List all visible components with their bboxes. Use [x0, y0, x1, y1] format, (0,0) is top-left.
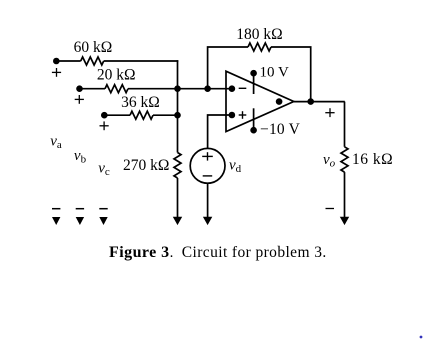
minus sign ground vc: [99, 208, 107, 210]
wire va to R 60k: [56, 60, 80, 62]
plus sign at terminal vb: [75, 95, 84, 104]
terminal vc: [101, 112, 108, 119]
svg-text:va: va: [50, 134, 62, 152]
resistor 36 kOhm: [130, 111, 153, 119]
label va: [50, 134, 62, 152]
resistor 20 kOhm: [105, 85, 128, 93]
resistor 270 kOhm: [174, 153, 181, 179]
positive supply pin dot: [250, 70, 257, 77]
minus sign ground va: [52, 208, 60, 210]
junction node bus/R36k: [174, 112, 181, 119]
label vc: [98, 161, 110, 179]
label vb: [74, 148, 87, 166]
wire vd to ground arrow: [207, 183, 209, 217]
wire R36k to bus: [153, 114, 178, 116]
op-amp inverting pin dot: [229, 85, 236, 92]
svg-text:20 kΩ: 20 kΩ: [97, 67, 136, 84]
wire 270k to ground arrow: [177, 178, 179, 218]
svg-text:Figure 3.: Figure 3.: [109, 244, 174, 261]
resistor 60 kOhm: [81, 57, 104, 65]
junction node bus/R20k: [174, 85, 181, 92]
label 36 kOhm: [121, 94, 160, 111]
source vd: [190, 148, 225, 183]
svg-text:Circuit for problem 3.: Circuit for problem 3.: [182, 244, 327, 261]
label 270 kOhm: [123, 157, 169, 174]
plus sign at terminal vc: [100, 121, 109, 130]
wire op-amp noninverting to vd source: [208, 115, 233, 149]
svg-text:36 kΩ: 36 kΩ: [121, 94, 160, 111]
svg-text:−10 V: −10 V: [260, 121, 301, 138]
label -10 V: [260, 121, 301, 138]
plus sign inside vd: [202, 152, 213, 160]
negative supply pin stub: [253, 108, 255, 130]
label 20 kOhm: [97, 67, 136, 84]
ground symbol vc: [99, 217, 107, 225]
minus sign vo: [326, 208, 335, 210]
minus sign inside vd: [203, 175, 213, 177]
minus sign inverting input: [239, 87, 247, 89]
wire R60k to bus: [104, 60, 179, 62]
negative supply pin dot: [250, 127, 257, 134]
minus sign ground vb: [76, 208, 84, 210]
svg-text:270 kΩ: 270 kΩ: [123, 157, 169, 174]
ground arrow below vd: [203, 217, 212, 225]
op-amp U1: [226, 71, 294, 131]
wire vc to R 36k: [104, 114, 130, 116]
svg-text:10 V: 10 V: [260, 64, 289, 80]
label 10 V: [260, 64, 289, 80]
wire vb to R 20k: [80, 88, 106, 90]
plus sign at terminal va: [52, 68, 61, 77]
feedback wire right vertical: [271, 47, 311, 102]
positive supply pin stub: [253, 73, 255, 94]
ground symbol va: [52, 217, 60, 225]
plus sign vo: [325, 108, 334, 117]
label vo: [323, 152, 336, 170]
label 180 kOhm: [236, 26, 282, 43]
resistor 16 kOhm: [341, 147, 348, 172]
plus sign noninverting input: [239, 111, 247, 119]
wire R16k to ground arrow: [344, 172, 346, 217]
resistor 180 kOhm: [248, 43, 271, 51]
ground arrow below 270k: [173, 217, 182, 225]
op-amp noninverting pin dot: [229, 112, 236, 119]
ground arrow below R16k: [340, 217, 349, 225]
svg-text:180 kΩ: 180 kΩ: [236, 26, 282, 43]
wire R20k to op-amp inverting input: [128, 88, 232, 90]
output wire: [294, 101, 345, 103]
wire output corner down to R16k: [344, 102, 346, 147]
feedback wire left vertical: [208, 47, 248, 89]
svg-text:vc: vc: [98, 161, 110, 179]
junction node output/feedback: [307, 98, 314, 105]
op-amp output pin dot: [276, 98, 283, 105]
svg-text:vb: vb: [74, 148, 87, 166]
junction node feedback/inverting: [204, 85, 211, 92]
terminal vb: [76, 85, 83, 92]
svg-text:vo: vo: [323, 152, 336, 170]
terminal va: [53, 58, 60, 65]
label 60 kOhm: [74, 39, 113, 56]
bus wire vertical: [177, 60, 179, 152]
ground symbol vb: [76, 217, 84, 225]
svg-text:60 kΩ: 60 kΩ: [74, 39, 113, 56]
label vd: [229, 158, 242, 176]
svg-text:vd: vd: [229, 158, 242, 176]
label 16 kOhm: [352, 151, 393, 168]
svg-text:16 kΩ: 16 kΩ: [352, 151, 393, 168]
decorative blue dot: [420, 336, 423, 339]
caption: [109, 244, 327, 261]
